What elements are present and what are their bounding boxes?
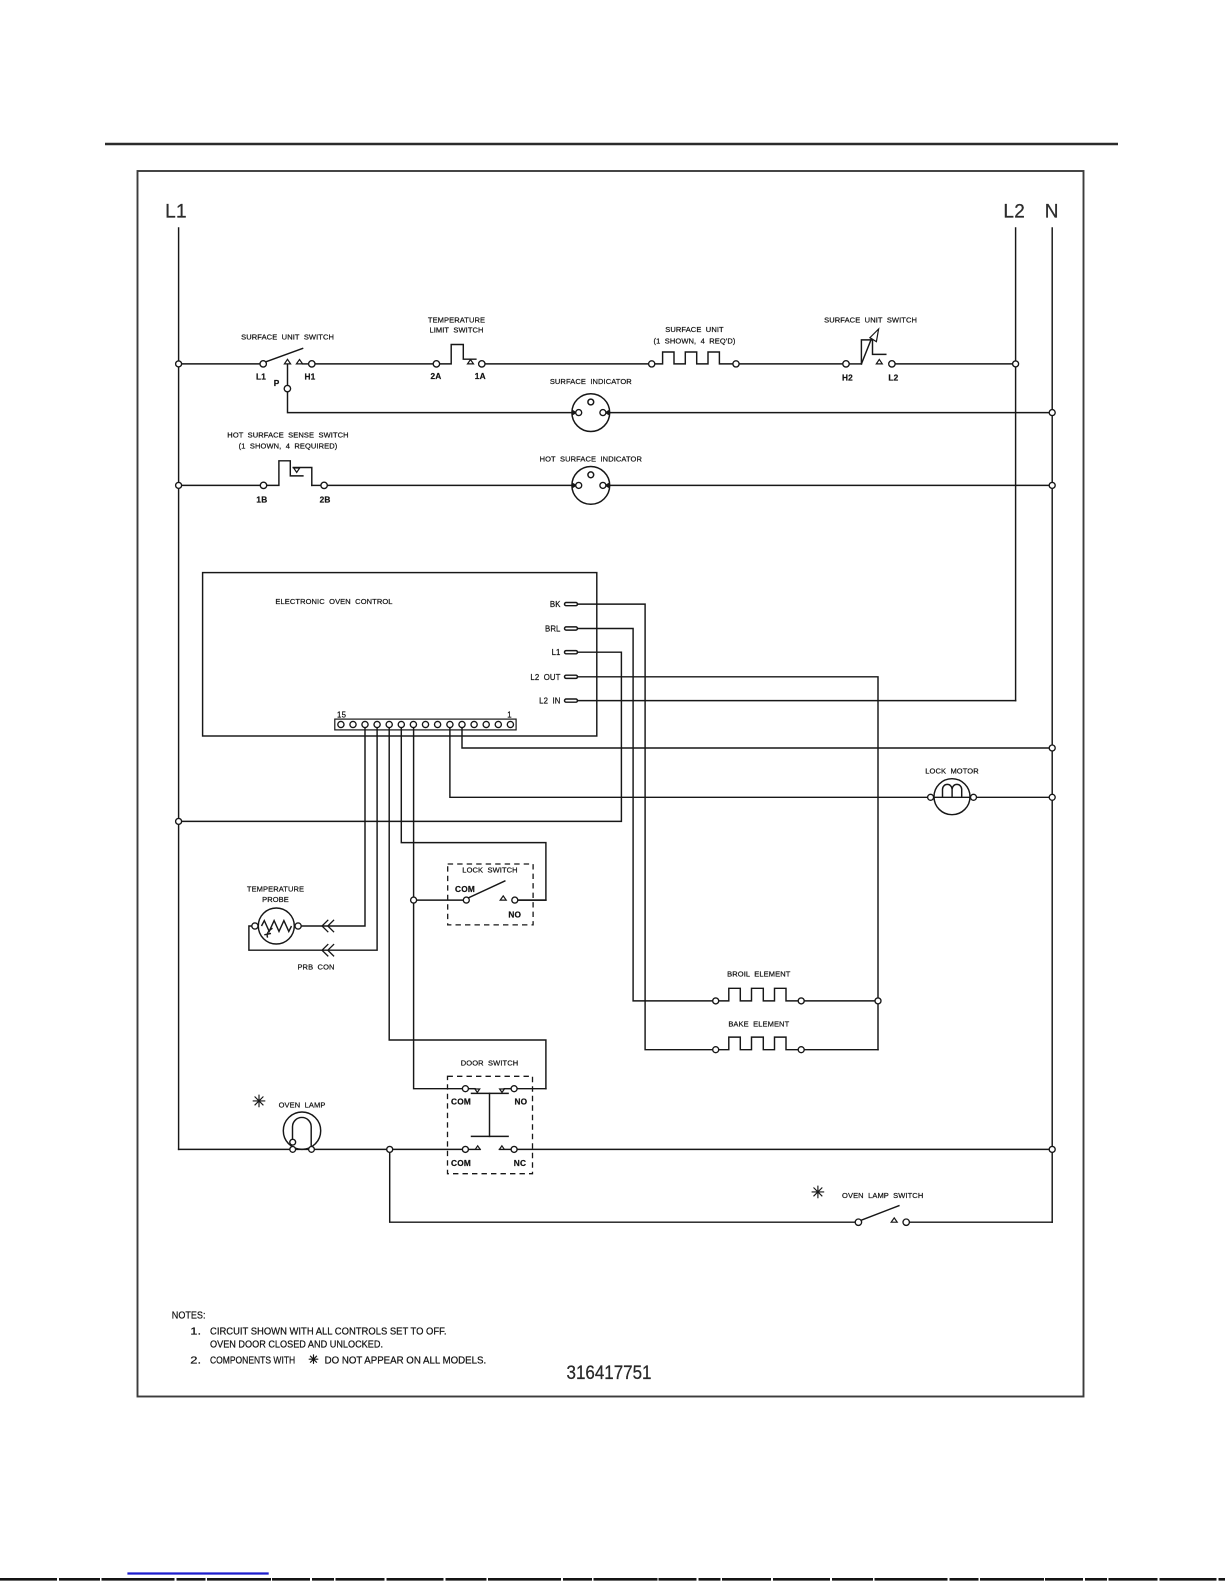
svg-text:ELECTRONIC OVEN CONTROL: ELECTRONIC OVEN CONTROL (275, 597, 392, 606)
svg-text:L2: L2 (1003, 202, 1025, 223)
svg-text:PROBE: PROBE (262, 895, 289, 904)
svg-text:L1: L1 (552, 648, 561, 657)
svg-text:NOTES:: NOTES: (172, 1310, 206, 1321)
svg-text:NO: NO (508, 910, 521, 920)
svg-text:L2 OUT: L2 OUT (530, 673, 560, 682)
svg-text:HOT SURFACE SENSE SWITCH: HOT SURFACE SENSE SWITCH (227, 431, 348, 440)
svg-text:NO: NO (514, 1096, 527, 1106)
svg-text:316417751: 316417751 (567, 1363, 652, 1384)
svg-text:NC: NC (514, 1158, 526, 1168)
svg-text:COMPONENTS WITH: COMPONENTS WITH (210, 1355, 295, 1366)
svg-text:1: 1 (507, 710, 512, 719)
svg-text:OVEN LAMP: OVEN LAMP (279, 1100, 326, 1109)
svg-text:L2: L2 (888, 373, 898, 383)
svg-text:HOT SURFACE INDICATOR: HOT SURFACE INDICATOR (540, 455, 643, 464)
svg-text:DOOR SWITCH: DOOR SWITCH (461, 1058, 518, 1067)
svg-text:CIRCUIT SHOWN WITH ALL CONTROL: CIRCUIT SHOWN WITH ALL CONTROLS SET TO O… (210, 1327, 447, 1338)
svg-text:OVEN DOOR CLOSED AND UNLOCKED.: OVEN DOOR CLOSED AND UNLOCKED. (210, 1340, 383, 1351)
svg-text:H2: H2 (842, 373, 853, 383)
svg-text:LOCK MOTOR: LOCK MOTOR (925, 767, 979, 776)
svg-text:2.: 2. (190, 1355, 201, 1366)
svg-text:1A: 1A (475, 371, 486, 381)
svg-text:1B: 1B (256, 495, 267, 505)
svg-text:LIMIT SWITCH: LIMIT SWITCH (429, 326, 483, 335)
svg-text:SURFACE INDICATOR: SURFACE INDICATOR (550, 377, 632, 386)
svg-text:(1 SHOWN, 4 REQUIRED): (1 SHOWN, 4 REQUIRED) (239, 442, 338, 451)
svg-text:P: P (274, 378, 280, 388)
svg-text:BRL: BRL (545, 625, 561, 634)
svg-text:TEMPERATURE: TEMPERATURE (428, 316, 485, 325)
svg-text:(1 SHOWN, 4 REQ'D): (1 SHOWN, 4 REQ'D) (654, 337, 736, 346)
svg-text:LOCK SWITCH: LOCK SWITCH (462, 866, 517, 875)
svg-text:15: 15 (337, 710, 347, 719)
svg-text:2A: 2A (430, 371, 441, 381)
svg-text:BAKE ELEMENT: BAKE ELEMENT (728, 1019, 789, 1028)
svg-text:COM: COM (451, 1158, 471, 1168)
svg-text:COM: COM (451, 1096, 471, 1106)
svg-text:N: N (1045, 202, 1059, 223)
svg-text:COM: COM (455, 884, 475, 894)
svg-text:BK: BK (550, 600, 561, 609)
svg-text:BROIL ELEMENT: BROIL ELEMENT (727, 970, 791, 979)
svg-text:PRB CON: PRB CON (297, 963, 334, 972)
svg-text:DO NOT APPEAR ON ALL MODELS.: DO NOT APPEAR ON ALL MODELS. (325, 1355, 487, 1366)
svg-text:2B: 2B (320, 495, 331, 505)
svg-text:L1: L1 (256, 372, 266, 382)
svg-text:H1: H1 (304, 372, 315, 382)
svg-text:1.: 1. (190, 1327, 201, 1338)
svg-text:SURFACE UNIT SWITCH: SURFACE UNIT SWITCH (824, 316, 917, 325)
svg-text:L2 IN: L2 IN (539, 697, 560, 706)
svg-text:OVEN LAMP SWITCH: OVEN LAMP SWITCH (842, 1191, 923, 1200)
svg-text:SURFACE UNIT SWITCH: SURFACE UNIT SWITCH (241, 333, 334, 342)
svg-text:L1: L1 (165, 202, 187, 223)
svg-text:SURFACE UNIT: SURFACE UNIT (665, 325, 724, 334)
svg-text:TEMPERATURE: TEMPERATURE (247, 885, 304, 894)
